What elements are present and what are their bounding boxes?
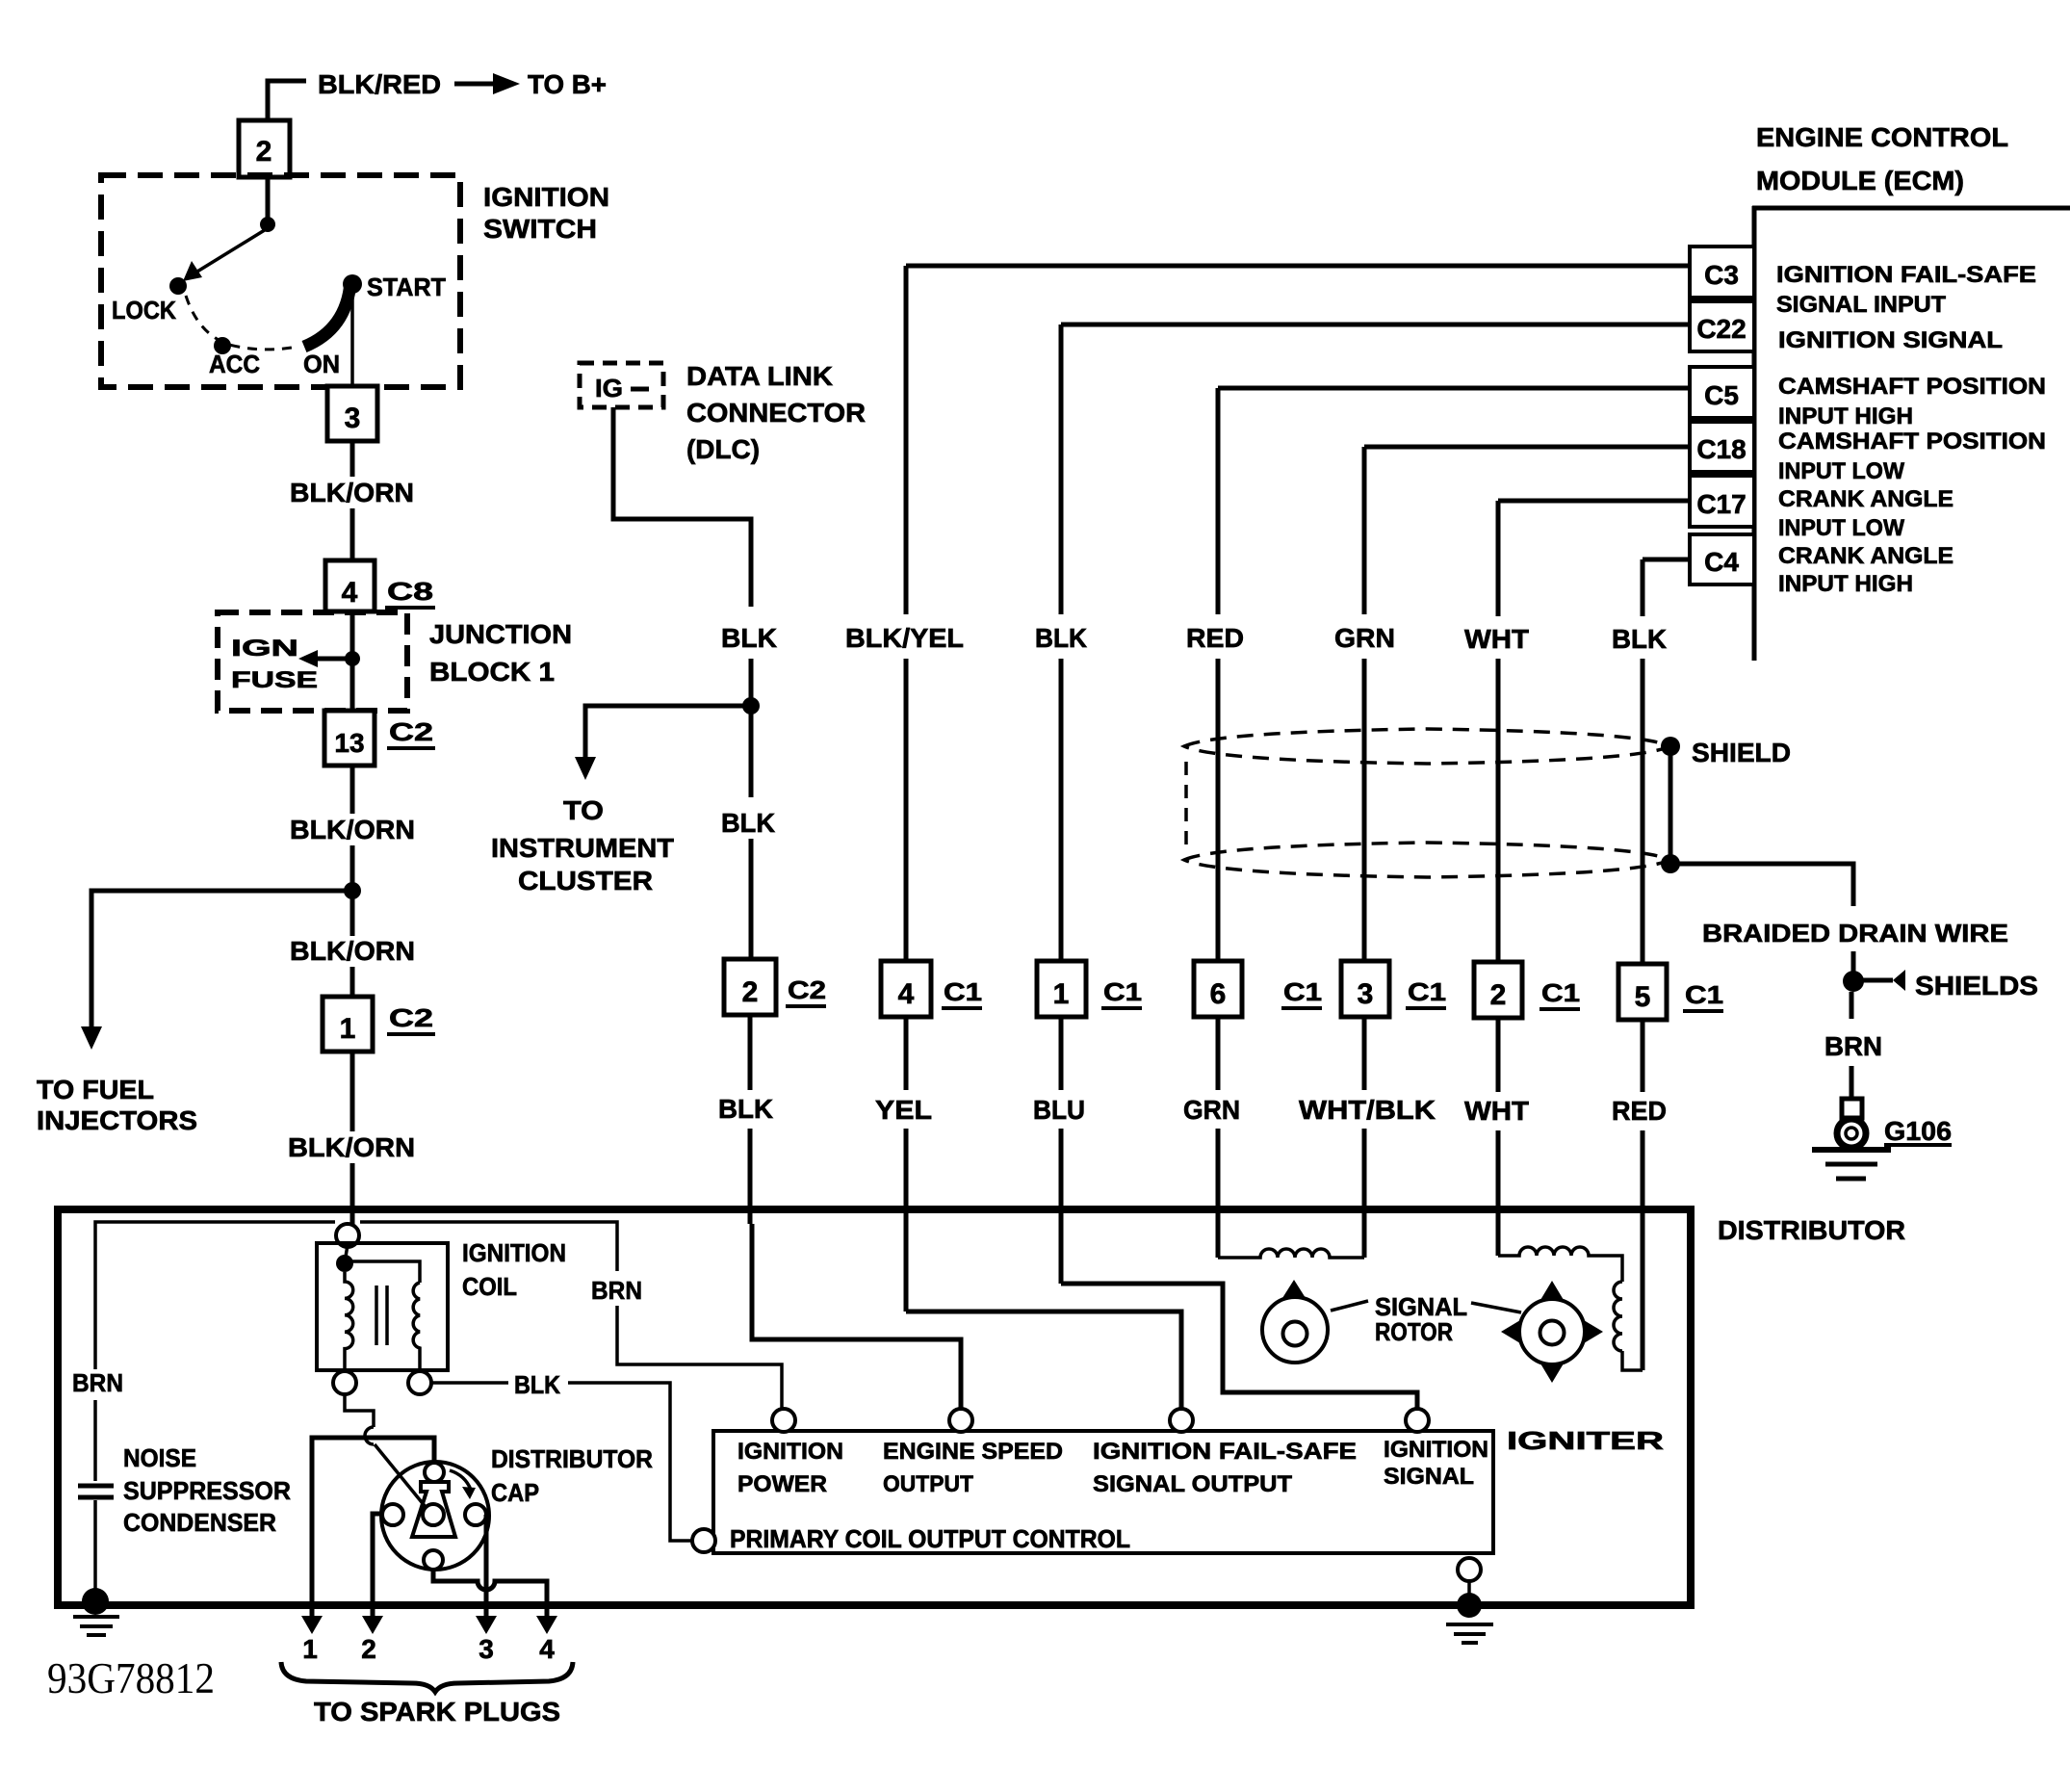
svg-text:INPUT HIGH: INPUT HIGH [1778,403,1913,429]
svg-text:C8: C8 [387,577,433,606]
svg-text:POWER: POWER [737,1471,827,1497]
svg-text:BLK: BLK [514,1370,560,1399]
svg-text:IGNITION: IGNITION [483,182,609,212]
svg-text:G106: G106 [1884,1116,1952,1146]
svg-text:GRN: GRN [1183,1095,1240,1125]
svg-text:3: 3 [479,1634,494,1664]
svg-text:YEL: YEL [875,1095,932,1125]
svg-text:(DLC): (DLC) [686,434,760,464]
svg-text:BLK/ORN: BLK/ORN [290,815,415,844]
svg-text:C18: C18 [1696,434,1746,464]
svg-text:C1: C1 [1103,977,1142,1006]
svg-text:DATA LINK: DATA LINK [686,361,833,391]
svg-text:BRN: BRN [591,1276,642,1305]
svg-text:2: 2 [1490,979,1507,1011]
svg-text:IGNITION FAIL-SAFE: IGNITION FAIL-SAFE [1093,1439,1357,1465]
svg-text:C5: C5 [1704,380,1739,410]
svg-text:IGNITION: IGNITION [737,1439,843,1465]
svg-text:TO FUEL: TO FUEL [37,1075,154,1104]
svg-text:INSTRUMENT: INSTRUMENT [491,833,674,863]
svg-text:WHT: WHT [1464,624,1529,654]
svg-text:CRANK ANGLE: CRANK ANGLE [1778,543,1954,569]
svg-text:C1: C1 [1408,977,1446,1006]
svg-text:SWITCH: SWITCH [483,214,597,244]
svg-text:13: 13 [334,728,364,758]
svg-text:3: 3 [345,403,361,434]
svg-text:SHIELDS: SHIELDS [1915,971,2038,1000]
svg-text:C1: C1 [1283,977,1322,1006]
svg-text:1: 1 [340,1013,356,1045]
svg-text:SHIELD: SHIELD [1692,738,1791,767]
svg-text:C1: C1 [944,977,982,1006]
svg-text:IG: IG [595,374,623,403]
svg-text:BRN: BRN [72,1368,123,1397]
svg-text:IGNITION SIGNAL: IGNITION SIGNAL [1778,327,2003,353]
svg-text:TO: TO [563,795,604,825]
svg-text:2: 2 [361,1634,376,1664]
svg-text:2: 2 [742,976,759,1008]
svg-text:MODULE (ECM): MODULE (ECM) [1756,166,1964,195]
svg-text:SIGNAL OUTPUT: SIGNAL OUTPUT [1093,1471,1292,1497]
svg-text:4: 4 [898,978,915,1010]
svg-text:CLUSTER: CLUSTER [518,866,653,896]
svg-text:CAMSHAFT POSITION: CAMSHAFT POSITION [1778,374,2046,400]
svg-text:BLK/YEL: BLK/YEL [845,623,964,653]
svg-text:BLK/ORN: BLK/ORN [288,1132,415,1162]
svg-text:BLK/ORN: BLK/ORN [290,478,414,507]
svg-text:C22: C22 [1696,314,1746,344]
svg-text:NOISE: NOISE [123,1443,196,1472]
svg-text:ROTOR: ROTOR [1375,1317,1453,1346]
svg-text:IGNITION FAIL-SAFE: IGNITION FAIL-SAFE [1776,262,2036,288]
svg-text:CAMSHAFT POSITION: CAMSHAFT POSITION [1778,429,2046,454]
svg-text:C2: C2 [389,1003,433,1032]
svg-text:DISTRIBUTOR: DISTRIBUTOR [1718,1215,1905,1245]
svg-text:INPUT HIGH: INPUT HIGH [1778,571,1913,597]
svg-text:SUPPRESSOR: SUPPRESSOR [123,1476,291,1505]
svg-text:6: 6 [1210,978,1227,1010]
svg-text:RED: RED [1612,1096,1667,1126]
svg-text:C1: C1 [1541,978,1580,1007]
svg-text:JUNCTION: JUNCTION [429,619,572,649]
svg-text:START: START [367,273,446,301]
svg-text:BLK: BLK [721,623,777,653]
svg-text:TO SPARK PLUGS: TO SPARK PLUGS [314,1697,560,1727]
svg-text:IGNITER: IGNITER [1507,1426,1664,1455]
svg-text:93G78812: 93G78812 [47,1654,215,1702]
svg-text:1: 1 [1053,978,1070,1010]
svg-text:RED: RED [1186,623,1244,653]
svg-text:BLK/RED: BLK/RED [318,69,441,99]
svg-text:IGNITION: IGNITION [462,1238,566,1267]
svg-text:CONNECTOR: CONNECTOR [686,398,866,428]
svg-text:BLK: BLK [1035,623,1087,653]
svg-text:C17: C17 [1696,489,1746,519]
svg-text:BLK: BLK [721,808,775,838]
svg-text:PRIMARY COIL OUTPUT CONTROL: PRIMARY COIL OUTPUT CONTROL [730,1524,1130,1553]
svg-text:WHT: WHT [1464,1096,1529,1126]
svg-text:DISTRIBUTOR: DISTRIBUTOR [491,1444,653,1473]
svg-text:BRN: BRN [1824,1031,1882,1061]
svg-text:FUSE: FUSE [231,667,318,693]
svg-text:ON: ON [303,350,340,378]
svg-text:ENGINE CONTROL: ENGINE CONTROL [1756,122,2008,152]
svg-text:C2: C2 [788,975,826,1004]
svg-text:OUTPUT: OUTPUT [883,1471,973,1497]
svg-text:3: 3 [1358,978,1374,1010]
svg-text:INPUT LOW: INPUT LOW [1778,458,1904,484]
svg-text:CONDENSER: CONDENSER [123,1508,276,1537]
svg-text:C3: C3 [1704,260,1739,290]
svg-text:BLK: BLK [718,1094,773,1124]
svg-text:BLK/ORN: BLK/ORN [290,936,415,966]
svg-text:2: 2 [256,136,272,168]
svg-text:CRANK ANGLE: CRANK ANGLE [1778,486,1954,512]
svg-text:4: 4 [342,577,358,609]
svg-text:C4: C4 [1704,547,1739,577]
svg-text:INJECTORS: INJECTORS [37,1105,197,1135]
svg-text:C1: C1 [1685,980,1723,1009]
svg-text:ENGINE SPEED: ENGINE SPEED [883,1439,1063,1465]
svg-text:1: 1 [302,1634,318,1664]
svg-text:C2: C2 [389,717,433,746]
svg-text:LOCK: LOCK [112,296,176,325]
svg-text:BLU: BLU [1033,1095,1085,1125]
svg-text:GRN: GRN [1334,623,1395,653]
svg-text:IGN: IGN [231,636,298,662]
svg-text:INPUT LOW: INPUT LOW [1778,515,1904,541]
svg-text:BRAIDED DRAIN WIRE: BRAIDED DRAIN WIRE [1702,919,2008,948]
svg-text:5: 5 [1635,981,1651,1013]
svg-text:IGNITION: IGNITION [1384,1437,1488,1463]
svg-text:BLK: BLK [1612,624,1667,654]
svg-text:4: 4 [539,1634,555,1664]
svg-text:COIL: COIL [462,1272,517,1301]
svg-text:SIGNAL INPUT: SIGNAL INPUT [1776,292,1946,318]
svg-text:WHT/BLK: WHT/BLK [1299,1095,1436,1125]
svg-text:CAP: CAP [491,1478,539,1507]
svg-text:ACC: ACC [209,350,260,378]
svg-text:SIGNAL: SIGNAL [1384,1464,1474,1490]
svg-text:BLOCK 1: BLOCK 1 [429,657,555,687]
svg-text:TO B+: TO B+ [528,69,607,99]
